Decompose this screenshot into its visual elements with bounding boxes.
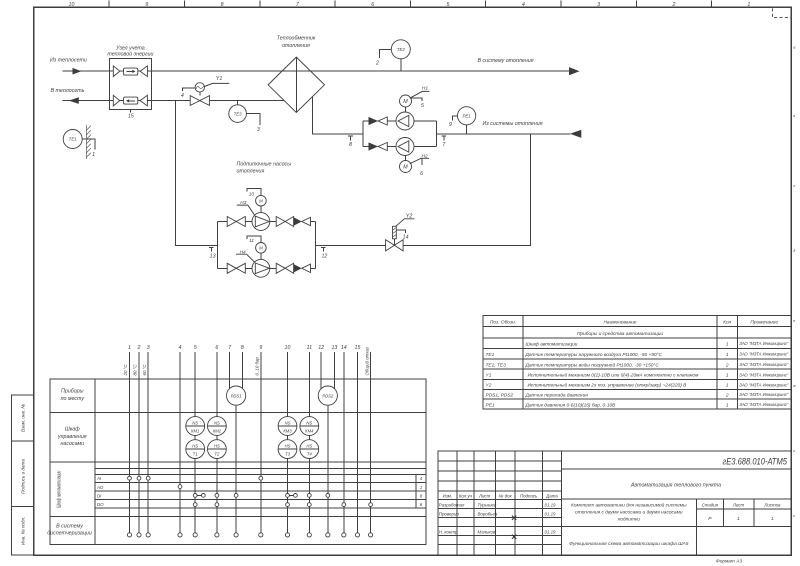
motor M of pump H1 [400,86,430,113]
svg-text:Поз. Обозн.: Поз. Обозн. [490,320,516,326]
svg-text:6: 6 [371,2,374,8]
flow meter supply [113,66,147,77]
flow arrow supply in [73,68,82,75]
svg-text:ЗАО "МЗТА Инжиниринг": ЗАО "МЗТА Инжиниринг" [739,362,788,367]
svg-text:Изм.: Изм. [443,494,452,499]
svg-text:NS: NS [306,421,312,426]
pressure switch PDS2 [318,386,337,405]
svg-text:Подпись и дата: Подпись и дата [21,459,26,494]
svg-text:1: 1 [726,373,729,379]
svg-text:е: е [793,319,795,323]
pump H2 [396,138,414,156]
svg-text:Y2: Y2 [406,213,413,219]
svg-text:1: 1 [726,341,729,347]
svg-text:DO: DO [97,502,104,507]
svg-text:2: 2 [375,60,379,66]
svg-text:9: 9 [259,345,262,351]
spec row PE1 [486,402,729,408]
svg-text:ЗАО "МЗТА Инжиниринг": ЗАО "МЗТА Инжиниринг" [739,341,788,346]
switch HS T4 [300,440,319,459]
svg-text:1: 1 [92,152,95,158]
signal column 6 [215,345,218,533]
junction DI nodes [193,494,329,498]
svg-text:3: 3 [257,127,260,133]
svg-text:60 °С: 60 °С [142,364,147,376]
pump H4 tag [236,249,255,262]
revision header row [443,494,559,499]
signal column 7 [228,345,232,390]
signal column 10 [285,345,291,533]
spec row TE2 TE3 [486,361,729,368]
heat exchanger [268,36,324,113]
svg-text:Из теплосети: Из теплосети [50,58,87,64]
pump H3 tag [237,200,255,215]
matrix row labels [47,389,92,537]
svg-text:1: 1 [747,2,750,8]
check valve H3 [294,217,311,225]
flow arrow from heating system [570,130,581,138]
node 12 tick [321,248,327,260]
svg-text:1: 1 [726,383,729,389]
svg-text:NS: NS [285,421,291,426]
signature rows [439,503,556,535]
motor M of pump H2 [400,153,430,177]
svg-text:12: 12 [321,254,327,260]
switch HS T1 [186,440,205,459]
svg-text:ж: ж [792,384,796,388]
solenoid valve Y2 [386,213,415,251]
IO row labels [96,476,104,507]
svg-text:и: и [793,449,795,453]
svg-text:Исполнительный механизм 2х поз: Исполнительный механизм 2х поз. управлен… [528,382,688,389]
matrix IO sub-table [95,469,426,508]
flow meter return [113,95,147,106]
svg-text:NS: NS [214,421,220,426]
svg-text:8: 8 [349,142,352,148]
spec header [490,320,778,326]
svg-text:диспетчеризации: диспетчеризации [47,531,92,537]
svg-text:11: 11 [249,238,254,244]
svg-text:13: 13 [331,345,337,351]
svg-text:подпитки: подпитки [618,517,641,523]
svg-text:Дата: Дата [545,494,558,499]
svg-text:отопления: отопления [282,43,310,49]
svg-text:КМ1: КМ1 [191,429,199,434]
signal column 15 metering [355,345,361,533]
svg-text:AO: AO [96,485,104,490]
svg-text:г: г [793,184,795,188]
svg-text:В систему: В систему [56,524,83,530]
circulation pumps manifolds [363,121,436,147]
svg-text:Шкаф автоматизации: Шкаф автоматизации [526,341,578,347]
svg-text:1: 1 [726,402,729,408]
signal column 2 TE2 [133,345,141,533]
node 8 tick [348,136,353,148]
svg-text:Из системы отопления: Из системы отопления [483,121,543,127]
svg-text:6: 6 [215,345,218,351]
svg-text:Функциональная схема автоматиз: Функциональная схема автоматизации шкафа… [569,541,689,547]
left stamp column [12,395,34,555]
svg-text:Y1: Y1 [216,76,223,82]
svg-text:к: к [793,514,795,518]
svg-text:Примечание: Примечание [750,320,778,326]
svg-text:Т2: Т2 [214,452,220,457]
junction DO nodes [193,503,372,507]
svg-text:10: 10 [285,345,291,351]
svg-text:Приборы: Приборы [61,389,84,395]
svg-text:Теплообменник: Теплообменник [277,36,316,42]
svg-text:ЗАО "МЗТА Инжиниринг": ЗАО "МЗТА Инжиниринг" [739,372,788,377]
svg-text:5: 5 [447,2,450,8]
specification table [483,315,791,409]
svg-text:01.19: 01.19 [545,530,557,535]
wall mount hatch for TE1 [86,125,90,159]
svg-text:Кол.уч: Кол.уч [459,494,473,499]
junction AO node [178,485,182,489]
svg-text:Стадия: Стадия [702,502,719,507]
switch HS T3 [278,440,297,459]
wire make-up to network return [176,101,218,246]
svg-text:1: 1 [726,352,729,358]
heat metering unit box [107,45,153,109]
svg-text:HS: HS [285,444,291,449]
IO counts [420,476,423,507]
signal column 13 [331,345,337,390]
svg-text:8: 8 [221,2,224,8]
svg-text:Т1: Т1 [193,452,198,457]
flow arrow to heat network [69,97,79,104]
sensor TE2 supply temperature [375,40,410,71]
zone ruler ticks top [109,1,711,8]
wire return from heating system [436,133,570,135]
svg-text:PDS1: PDS1 [231,393,242,398]
signal column 5 [194,345,197,533]
svg-text:1: 1 [771,516,774,522]
sensor TE1 outdoor temperature [63,130,95,150]
svg-text:В теплосеть: В теплосеть [51,88,85,94]
pump H1 [396,112,414,130]
check valve H4 [294,264,311,272]
svg-text:AI: AI [96,476,102,481]
svg-text:Подпись: Подпись [520,494,538,499]
svg-text:Наименование: Наименование [603,320,636,326]
svg-text:ЗАО "МЗТА Инжиниринг": ЗАО "МЗТА Инжиниринг" [739,382,788,387]
starter NS KM1 [186,417,205,436]
svg-text:Шкаф автоматизации: Шкаф автоматизации [57,471,63,508]
svg-text:HS: HS [306,444,312,449]
pin 15 metering unit signal [128,110,134,120]
svg-text:тепловой энергии: тепловой энергии [107,51,153,58]
svg-text:M: M [259,199,263,204]
sensor TE3 supply water temperature [229,101,260,133]
svg-text:КМ3: КМ3 [283,429,292,434]
svg-text:гЕ3.688.010-АТМ5: гЕ3.688.010-АТМ5 [723,456,788,466]
dispatch terminal nodes [127,533,372,537]
valve after pump H4 [276,263,293,273]
svg-text:9: 9 [449,122,452,128]
svg-text:Лист: Лист [732,502,745,507]
stage cells [702,502,782,507]
svg-text:ЗАО "МЗТА Инжиниринг": ЗАО "МЗТА Инжиниринг" [739,392,788,397]
signature marks [512,516,516,539]
svg-text:M: M [259,246,263,251]
svg-text:12: 12 [318,345,324,351]
svg-text:80 °С: 80 °С [133,364,138,376]
svg-text:TE2, TE3: TE2, TE3 [486,362,507,368]
svg-text:PDS1, PDS2: PDS1, PDS2 [486,392,514,398]
svg-text:Лист: Лист [478,494,491,499]
svg-text:Т3: Т3 [285,452,291,457]
svg-text:HS: HS [214,444,220,449]
svg-text:4: 4 [522,2,525,8]
svg-text:20 °С: 20 °С [123,364,128,377]
svg-text:15: 15 [355,345,361,351]
svg-text:2: 2 [672,2,676,8]
svg-text:15: 15 [128,113,134,119]
pressure switch PDS1 [227,386,246,405]
signal column 1 TE1 [123,345,131,533]
svg-text:Приборы и средства автоматизац: Приборы и средства автоматизации [577,331,663,337]
flow arrow to heating system [569,67,580,75]
svg-text:PDS2: PDS2 [322,393,334,398]
svg-text:Датчик температуры наружного в: Датчик температуры наружного воздуха Pt1… [525,352,663,358]
svg-text:HS: HS [192,444,198,449]
svg-text:Y2: Y2 [486,383,492,389]
svg-text:Кол: Кол [723,320,731,326]
svg-text:Датчик перепада давления: Датчик перепада давления [525,392,589,398]
switch HS T2 [208,440,227,459]
svg-text:2: 2 [137,345,141,351]
wire return line to heat network [63,100,285,102]
matrix table frame [50,379,426,545]
svg-text:2: 2 [725,392,729,398]
svg-text:6: 6 [420,171,423,177]
svg-text:Воробьев: Воробьев [478,512,498,517]
svg-text:11: 11 [307,345,313,351]
svg-text:TE1: TE1 [486,352,495,358]
spec row TE1 [486,352,729,358]
svg-text:1: 1 [128,345,131,351]
spec notes column [739,341,788,407]
pump H3 [252,213,270,231]
spec row PDS [486,392,729,398]
svg-text:Подпиточные насосы: Подпиточные насосы [237,162,292,168]
svg-text:1: 1 [737,516,740,522]
valve after pump H3 [276,217,293,227]
right margin zone letters [792,46,796,518]
svg-text:14: 14 [403,234,409,240]
node 13 tick [209,248,215,260]
svg-text:отопления: отопления [237,168,265,174]
wire PDS1 to DI [235,405,237,533]
motor M of pump H3 [247,189,266,213]
svg-text:управления: управления [57,434,87,440]
starter NS KM3 [278,417,297,436]
svg-text:0..10 бар: 0..10 бар [255,357,260,376]
svg-text:КМ2: КМ2 [213,429,222,434]
svg-text:Инв. № подл.: Инв. № подл. [21,517,26,546]
object description [571,502,687,523]
svg-text:01.19: 01.19 [545,503,557,508]
svg-text:13: 13 [210,254,216,260]
svg-text:Формат А3: Формат А3 [716,558,743,564]
svg-text:NS: NS [192,421,198,426]
svg-text:2: 2 [725,362,729,368]
spec row Y1 [486,372,729,379]
svg-text:Датчик давления 0-6(10)(16) ба: Датчик давления 0-6(10)(16) бар, 0-10В [525,402,617,408]
svg-text:Датчик температуры воды погруж: Датчик температуры воды погружной Pt1000… [525,361,660,368]
svg-text:PE1: PE1 [486,402,495,408]
wire make-up tap from return [316,134,531,246]
svg-text:9: 9 [145,2,148,8]
svg-text:Мальков: Мальков [478,530,496,535]
svg-text:M: M [403,99,408,105]
svg-text:КМ4: КМ4 [305,429,314,434]
signal column 12 [318,345,324,390]
svg-text:M: M [403,165,408,171]
svg-text:8: 8 [241,345,244,351]
svg-text:В систему отопления: В систему отопления [478,58,534,64]
svg-text:Взам. инв. №: Взам. инв. № [21,404,26,432]
svg-text:Т4: Т4 [307,452,313,457]
signal column 8 [241,345,244,390]
sensor PE1 pressure [449,107,476,134]
spec row cabinet [526,341,729,347]
valve before pump H4 [227,263,245,273]
svg-text:14: 14 [341,345,347,351]
control valve Y1 [181,76,230,106]
svg-text:Общий отказ: Общий отказ [364,347,369,375]
svg-text:Н. контр: Н. контр [439,530,458,535]
svg-text:Комплект автоматики для незави: Комплект автоматики для независимой сист… [571,502,687,509]
svg-text:5: 5 [421,103,424,109]
valve before pump H3 [227,217,245,227]
svg-text:DI: DI [97,493,102,498]
svg-text:10: 10 [249,192,255,198]
check valve pump H2 [369,142,388,150]
signal column 14 Y2 [341,345,347,533]
svg-text:Разработал: Разработал [439,503,465,508]
svg-text:TE3: TE3 [234,111,243,116]
svg-text:H1: H1 [422,86,428,92]
svg-text:в: в [793,114,795,118]
svg-text:01.19: 01.19 [545,512,557,517]
svg-text:№ док: № док [499,494,513,499]
signal column 11 [307,345,313,533]
svg-text:Исполнительный механизм 0(2)-1: Исполнительный механизм 0(2)-10В или 0(4… [528,372,700,379]
svg-text:насосами: насосами [60,441,84,447]
svg-text:Шкаф: Шкаф [65,427,80,433]
svg-text:отопления с двумя насосами и д: отопления с двумя насосами и двумя насос… [575,510,683,516]
format zone dashed mark [773,7,792,17]
svg-text:4: 4 [179,345,182,351]
svg-text:Узел учета: Узел учета [116,45,145,51]
check valve pump H1 [369,117,388,125]
svg-text:ЗАО "МЗТА Инжиниринг": ЗАО "МЗТА Инжиниринг" [739,352,788,357]
svg-text:10: 10 [69,2,75,8]
node 7 tick [442,136,447,148]
title block frame [438,451,791,555]
starter NS KM4 [300,417,319,436]
svg-text:Автоматизация теплового пункта: Автоматизация теплового пункта [630,482,721,488]
spec row Y2 [486,382,729,389]
pump H4 [252,259,270,277]
svg-text:д: д [793,249,795,253]
svg-text:3: 3 [147,345,150,351]
motor M of pump H4 [247,236,266,259]
wire exchanger to return header [313,97,364,134]
svg-text:Листов: Листов [763,502,781,507]
svg-text:Турышев: Турышев [478,503,497,508]
signal column 3 TE3 [142,345,150,533]
svg-text:Y1: Y1 [486,373,492,379]
signal column 16 common fault [364,347,370,533]
svg-text:PE1: PE1 [462,114,471,119]
svg-text:Проверил: Проверил [439,512,460,517]
zone numbers top [69,2,751,8]
junction AI nodes [128,476,263,480]
svg-text:5: 5 [194,345,197,351]
svg-text:ЗАО "МЗТА Инжиниринг": ЗАО "МЗТА Инжиниринг" [739,402,788,407]
wire supply line from heat network [63,70,570,72]
svg-text:4: 4 [181,93,184,99]
starter NS KM2 [208,417,227,436]
wire PDS2 to DI [327,405,329,533]
svg-text:TE2: TE2 [397,47,406,52]
make-up pumps manifolds [218,222,316,269]
svg-text:TE1: TE1 [69,137,78,142]
svg-text:3: 3 [597,2,600,8]
signal column 9 PE1 [255,345,263,533]
svg-text:по месту: по месту [61,396,85,402]
signal column 4 Y1 [179,345,182,533]
